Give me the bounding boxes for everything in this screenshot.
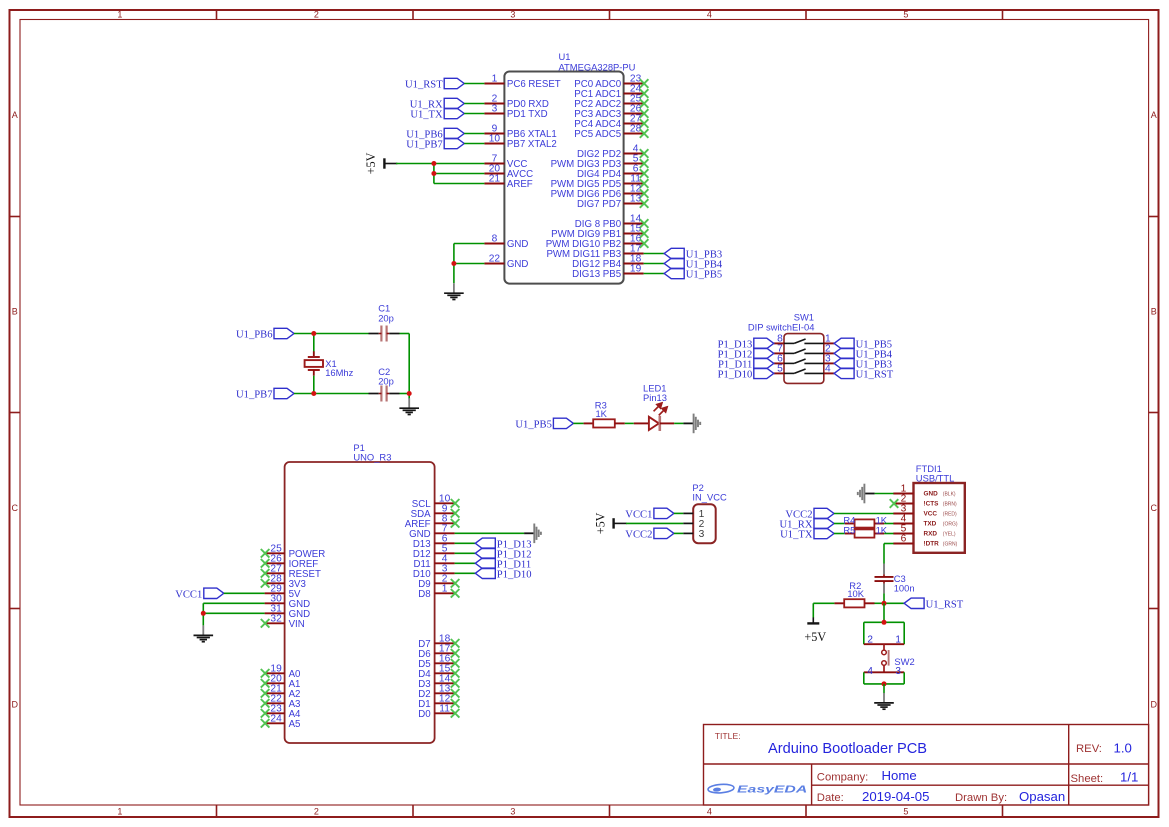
wire SW2 to ground [883, 684, 885, 693]
P2 pin 2 [683, 519, 704, 530]
svg-text:5: 5 [903, 807, 908, 817]
resistor R2 10K [834, 580, 874, 608]
svg-text:3: 3 [699, 529, 705, 540]
capacitor C1 20p [369, 303, 400, 342]
svg-text:B: B [1151, 306, 1157, 316]
SW1 switch element 6-3 [784, 359, 824, 363]
net flag VCC1 (P2) [625, 508, 674, 520]
svg-text:TITLE:: TITLE: [715, 731, 741, 741]
svg-text:RXD: RXD [924, 531, 938, 538]
wire C1 to right rail [400, 334, 410, 394]
wire node to U1 AVCC [434, 173, 485, 175]
P2 pin 3 [683, 529, 704, 540]
junction SW2 top [882, 620, 887, 625]
LED LED1 Pin13 [634, 383, 674, 431]
P1 pin 13 D2 [418, 683, 459, 700]
U1 pin 28 PC5 ADC5 [574, 124, 648, 141]
ground symbol (crystal) [399, 398, 419, 414]
power flag +5V (R2 pullup) [804, 617, 826, 644]
wire U1 GND pin8 [454, 244, 485, 284]
junction VCC node [431, 161, 436, 166]
svg-text:8: 8 [492, 234, 498, 245]
wire U1_PB6 to U1 [464, 133, 484, 135]
svg-text:10: 10 [489, 134, 501, 145]
date field [817, 789, 930, 804]
ground symbol (U1) [444, 283, 464, 299]
svg-text:A5: A5 [289, 719, 301, 730]
ground symbol (LED1) [683, 414, 700, 434]
FTDI1 pin 6 !DTR [893, 534, 957, 548]
P1 pin 6 D13 [413, 533, 455, 550]
svg-text:DIG13 PB5: DIG13 PB5 [572, 269, 621, 280]
svg-text:+5V: +5V [804, 630, 826, 644]
U1 pin 18 DIG12 PB4 [572, 254, 644, 271]
svg-text:+5V: +5V [593, 512, 607, 534]
power flag +5V (P2) [593, 512, 626, 534]
U1 pin 15 PWM DIG9 PB1 [551, 224, 648, 241]
svg-text:24: 24 [270, 713, 282, 724]
revision field [1076, 740, 1132, 755]
P1 pin 18 D7 [418, 633, 459, 650]
svg-text:1K: 1K [595, 408, 607, 419]
svg-text:1: 1 [117, 10, 122, 20]
svg-text:3: 3 [492, 104, 498, 115]
wire U1_PB7 to U1 [464, 143, 484, 145]
P1 pin 24 A5 [261, 713, 301, 730]
svg-text:Home: Home [882, 768, 917, 783]
SW1 pin 6 (left) [774, 354, 784, 365]
svg-text:U1: U1 [559, 51, 571, 62]
net flag U1_PB7 [406, 138, 464, 150]
net flag U1_PB6 (crystal) [236, 328, 294, 340]
FTDI1 pin 4 TXD [893, 514, 958, 528]
svg-text:Pin13: Pin13 [643, 392, 667, 403]
P1 pin 7 GND [409, 523, 455, 540]
svg-text:VCC: VCC [924, 511, 938, 518]
svg-text:GND: GND [507, 239, 529, 250]
svg-text:2: 2 [867, 634, 873, 645]
U1 pin 25 PC2 ADC2 [574, 94, 648, 111]
U1 pin 24 PC1 ADC1 [574, 84, 648, 101]
U1 pin 23 PC0 ADC0 [574, 74, 648, 91]
push button SW2 [864, 634, 915, 677]
svg-text:DIG7 PD7: DIG7 PD7 [577, 199, 621, 210]
U1 pin 2 PD0 RXD [484, 94, 549, 111]
wire U1_PB6 to C1 [294, 333, 369, 335]
wire P1 to P1_D10 [455, 572, 476, 574]
U1 pin 10 PB7 XTAL2 [484, 134, 556, 151]
svg-text:PC5 ADC5: PC5 ADC5 [574, 129, 621, 140]
svg-text:GND: GND [924, 491, 939, 498]
FTDI1 pin 5 RXD [893, 524, 956, 538]
U1 pin 7 VCC [484, 154, 527, 171]
SW1 pin 2 (right) [824, 344, 834, 355]
svg-text:13: 13 [630, 194, 642, 205]
wire node to U1 AREF [434, 164, 485, 184]
svg-text:USB/TTL: USB/TTL [916, 472, 955, 483]
U1 pin 14 DIG 8 PB0 [575, 214, 649, 231]
U1 pin 8 GND [484, 234, 528, 251]
wire U1_RX to R4 [834, 523, 845, 525]
svg-text:28: 28 [630, 124, 642, 135]
svg-text:(RED): (RED) [943, 511, 957, 517]
wire R4 to FTDI TXD [884, 523, 893, 525]
svg-text:1: 1 [442, 583, 448, 594]
P1 pin 16 D5 [418, 653, 459, 670]
svg-text:22: 22 [489, 254, 501, 265]
net flag P1_D11 [475, 558, 531, 570]
P1 pin 2 D9 [418, 573, 459, 590]
wire VCC1 to P2 pin1 [674, 512, 683, 514]
svg-text:(ORG): (ORG) [943, 521, 958, 527]
svg-text:(YEL): (YEL) [943, 531, 956, 537]
title block [704, 725, 1149, 806]
svg-text:1: 1 [117, 807, 122, 817]
U1 pin 3 PD1 TXD [484, 104, 547, 121]
SW1 switch element 7-2 [784, 349, 824, 353]
wire RST node to SW2 [883, 603, 885, 622]
svg-text:U1_PB6: U1_PB6 [236, 330, 273, 341]
svg-text:1: 1 [492, 74, 498, 85]
svg-text:P1_D10: P1_D10 [497, 570, 532, 581]
title text Arduino Bootloader PCB [715, 731, 927, 757]
U1 pin 1 PC6 RESET [484, 74, 560, 91]
U1 pin 13 DIG7 PD7 [577, 194, 648, 211]
net flag P1_D13 [475, 538, 531, 550]
svg-text:U1_PB7: U1_PB7 [406, 140, 443, 151]
wire R3 to LED1 [625, 422, 634, 424]
svg-text:1.0: 1.0 [1114, 740, 1132, 755]
wire P1 to P1_D13 [455, 542, 476, 544]
svg-text:1/1: 1/1 [1120, 770, 1138, 785]
net flag U1_PB5 [664, 268, 722, 280]
svg-text:PC6 RESET: PC6 RESET [507, 79, 561, 90]
SW1 switch element 8-1 [784, 339, 824, 343]
svg-text:Sheet:: Sheet: [1071, 773, 1104, 785]
wire C2 to ground rail [400, 394, 410, 399]
svg-text:4: 4 [867, 666, 873, 677]
U1 pin 26 PC3 ADC3 [574, 104, 648, 121]
P1 pin 30 GND [265, 593, 311, 610]
net flag U1_RST [405, 78, 464, 90]
U1 pin 19 DIG13 PB5 [572, 264, 644, 281]
SW1 switch element 5-4 [784, 369, 824, 373]
sheet field [1071, 770, 1139, 786]
no-connect X FTDI pin2 [890, 499, 899, 508]
U1 pin 27 PC4 ADC4 [574, 114, 648, 131]
net flag P1_D10 (SW1) [718, 368, 774, 380]
U1 pin 5 PWM DIG3 PD3 [551, 154, 649, 171]
svg-text:6: 6 [901, 534, 907, 545]
svg-text:U1_PB5: U1_PB5 [515, 420, 552, 431]
net flag U1_PB3 [664, 248, 722, 260]
junction crystal bottom [311, 391, 316, 396]
wire RST node to U1_RST flag [884, 602, 904, 604]
P1 pin 17 D6 [418, 643, 459, 660]
net flag VCC2 (FTDI) [785, 508, 834, 520]
P1 pin 12 D1 [418, 693, 459, 710]
svg-text:C: C [1151, 503, 1158, 513]
svg-text:B: B [12, 306, 18, 316]
svg-text:16Mhz: 16Mhz [325, 367, 353, 378]
FTDI1 pin 2 !CTS [893, 494, 957, 508]
svg-text:1: 1 [895, 634, 901, 645]
svg-text:D8: D8 [418, 589, 430, 600]
svg-text:2019-04-05: 2019-04-05 [862, 789, 929, 804]
wire R2 to +5V [813, 603, 834, 617]
P1 pin 22 A3 [261, 693, 301, 710]
P1 pin 15 D4 [418, 663, 459, 680]
U1 pin 16 PWM DIG10 PB2 [546, 234, 649, 251]
wire U1 to U1_PB4 [644, 263, 665, 265]
P2 pin 1 [683, 509, 704, 520]
junction SW2 bottom [882, 681, 887, 686]
net flag U1_TX (FTDI) [780, 528, 834, 540]
svg-text:20p: 20p [378, 312, 394, 323]
P1 pin 31 GND [265, 603, 311, 620]
resistor R4 1K [843, 514, 887, 527]
svg-text:100n: 100n [894, 583, 915, 594]
svg-text:C: C [11, 503, 18, 513]
svg-text:R5: R5 [843, 524, 855, 535]
DIP switch SW1 body [748, 312, 824, 384]
wire P1 GND pin7 to ground [455, 532, 524, 534]
svg-text:IN_VCC: IN_VCC [692, 492, 727, 503]
P1 pin 26 IOREF [261, 553, 318, 570]
svg-text:3: 3 [895, 666, 901, 677]
op-amp U1 body (IC ATMEGA328P-PU) [504, 51, 635, 284]
resistor R3 1K [584, 400, 625, 428]
SW1 pin 8 (left) [774, 334, 784, 345]
net flag U1_RX [410, 98, 464, 110]
svg-text:PD1 TXD: PD1 TXD [507, 109, 548, 120]
svg-text:+5V: +5V [364, 152, 378, 174]
U1 pin 20 AVCC [484, 164, 533, 181]
wire P1 to P1_D12 [455, 552, 476, 554]
wire P1 to P1_D11 [455, 562, 476, 564]
svg-text:DIP switchEI-04: DIP switchEI-04 [748, 321, 815, 332]
wire U1_TX to U1 [464, 113, 484, 115]
wire SW2 top loop [864, 622, 904, 644]
svg-text:4: 4 [825, 364, 831, 375]
wire VCC1 to P1 5V [224, 592, 265, 594]
svg-text:20p: 20p [378, 376, 394, 387]
svg-text:PB7 XTAL2: PB7 XTAL2 [507, 139, 557, 150]
net flag U1_RX (FTDI) [780, 518, 834, 530]
svg-text:4: 4 [707, 10, 712, 20]
wire U1 to U1_PB3 [644, 253, 665, 255]
junction RST node [882, 601, 887, 606]
svg-text:A: A [1151, 110, 1157, 120]
svg-text:10K: 10K [847, 588, 864, 599]
svg-text:4: 4 [707, 807, 712, 817]
P1 pin 5 D12 [413, 543, 455, 560]
svg-text:3: 3 [510, 10, 515, 20]
power flag +5V (U1 supply) [364, 152, 397, 174]
svg-text:(GRN): (GRN) [943, 541, 958, 547]
FTDI1 pin 3 VCC [893, 504, 957, 518]
svg-text:REV:: REV: [1076, 743, 1102, 755]
svg-text:AREF: AREF [507, 179, 533, 190]
net flag U1_PB4 (SW1) [834, 348, 893, 360]
P1 pin 11 D0 [418, 703, 459, 720]
wire U1_PB5 to R3 [573, 422, 583, 424]
net flag U1_PB4 [664, 258, 723, 270]
junction crystal top [311, 331, 316, 336]
wire P1 GND pin31 [203, 612, 264, 614]
net flag P1_D12 (SW1) [718, 348, 774, 360]
P1 pin 19 A0 [261, 663, 301, 680]
U1 pin 22 GND [484, 254, 528, 271]
svg-text:VCC1: VCC1 [175, 590, 202, 601]
svg-text:Opasan: Opasan [1019, 789, 1065, 804]
wire U1_TX to R5 [834, 533, 845, 535]
P1 pin 25 POWER [261, 543, 325, 560]
U1 pin 17 PWM DIG11 PB3 [546, 244, 643, 261]
SW1 pin 1 (right) [824, 334, 834, 345]
U1 pin 21 AREF [484, 174, 532, 191]
svg-text:UNO_R3: UNO_R3 [353, 451, 391, 462]
P1 pin 9 SDA [411, 503, 460, 520]
wire SW2 bottom loop [864, 672, 904, 684]
P1 pin 1 D8 [418, 583, 459, 600]
P1 pin 23 A4 [261, 703, 301, 720]
U1 pin 4 DIG2 PD2 [577, 144, 648, 161]
svg-text:Drawn By:: Drawn By: [955, 792, 1007, 804]
capacitor C3 100n [875, 564, 915, 594]
U1 pin 9 PB6 XTAL1 [484, 124, 556, 141]
svg-text:!DTR: !DTR [924, 541, 940, 548]
net flag U1_RST (SW1) [834, 368, 894, 380]
wire C3 to RST node [883, 593, 885, 603]
svg-text:5: 5 [777, 364, 783, 375]
svg-text:U1_RST: U1_RST [405, 80, 443, 91]
svg-text:A: A [12, 110, 18, 120]
wire R5 to FTDI RXD [884, 533, 893, 535]
ground symbol (P1 pin7) [524, 524, 541, 544]
svg-text:VCC1: VCC1 [625, 510, 652, 521]
SW1 pin 7 (left) [774, 344, 784, 355]
P1 pin 27 RESET [261, 563, 321, 580]
net flag U1_PB6 [406, 128, 464, 140]
P1 pin 4 D11 [414, 553, 455, 570]
wire FTDI !DTR to C3 [884, 544, 894, 564]
svg-text:D0: D0 [418, 709, 431, 720]
net flag P1_D11 (SW1) [718, 358, 774, 370]
company field [817, 768, 917, 783]
U1 pin 6 DIG4 PD4 [577, 164, 648, 181]
svg-text:U1_RST: U1_RST [926, 600, 964, 611]
wire U1_RST to U1 [464, 83, 484, 85]
wire U1_PB7 to C2 [294, 393, 369, 395]
P1 pin 8 AREF [405, 513, 460, 530]
junction C2 output [407, 391, 412, 396]
drawn by field [955, 789, 1065, 804]
svg-text:EasyEDA: EasyEDA [737, 784, 807, 795]
junction P1 GND node [201, 611, 206, 616]
P1 pin 20 A1 [261, 673, 301, 690]
svg-text:(BRN): (BRN) [943, 501, 957, 507]
svg-text:2: 2 [314, 807, 319, 817]
crystal X1 16Mhz [305, 334, 354, 394]
connector FTDI1 USB/TTL body [914, 463, 965, 553]
ground symbol (FTDI) [858, 484, 875, 504]
SW1 pin 4 (right) [824, 364, 834, 375]
net flag VCC2 (P2) [625, 528, 674, 540]
svg-text:U1_PB5: U1_PB5 [686, 270, 723, 281]
net flag U1_PB5 (SW1) [834, 338, 892, 350]
svg-text:Company:: Company: [817, 772, 869, 784]
ground symbol (P1) [194, 625, 214, 641]
junction GND node [451, 261, 456, 266]
P1 pin 3 D10 [413, 563, 455, 580]
SW1 pin 5 (left) [774, 364, 784, 375]
P1 pin 29 5V [265, 583, 301, 600]
svg-text:U1_TX: U1_TX [780, 530, 813, 541]
capacitor C2 20p [369, 366, 400, 402]
FTDI1 pin 1 GND [893, 484, 956, 498]
wire +5V to U1 VCC [396, 163, 484, 165]
net flag P1_D13 (SW1) [718, 338, 774, 350]
net flag U1_PB5 (LED drive) [515, 418, 573, 430]
svg-text:ATMEGA328P-PU: ATMEGA328P-PU [559, 62, 636, 73]
svg-text:Date:: Date: [817, 792, 844, 804]
wire LED1 to ground [674, 422, 683, 424]
svg-text:!CTS: !CTS [924, 501, 940, 508]
net flag U1_PB7 (crystal) [236, 388, 294, 400]
svg-text:VIN: VIN [289, 619, 305, 630]
EasyEDA logo [708, 784, 808, 795]
wire VCC2 to FTDI VCC [834, 513, 894, 515]
P1 pin 21 A2 [261, 683, 301, 700]
svg-text:D: D [1151, 699, 1158, 709]
svg-text:(BLK): (BLK) [943, 491, 956, 497]
wire U1 GND pin22 [454, 263, 485, 265]
svg-text:2: 2 [314, 10, 319, 20]
svg-text:GND: GND [507, 259, 529, 270]
svg-text:11: 11 [439, 703, 450, 714]
net flag U1_RST (reset node) [904, 598, 964, 610]
wire R2 to RST node [875, 602, 885, 604]
svg-text:U1_PB7: U1_PB7 [236, 390, 273, 401]
wire FTDI GND to ground [875, 493, 894, 495]
connector P1 UNO_R3 body [285, 442, 435, 743]
P1 pin 32 VIN [261, 613, 305, 630]
resistor R5 1K [843, 524, 887, 537]
wire U1 to U1_PB5 [644, 273, 665, 275]
U1 pin 11 PWM DIG5 PD5 [551, 174, 649, 191]
svg-text:5: 5 [903, 10, 908, 20]
svg-text:3: 3 [510, 807, 515, 817]
P1 pin 28 3V3 [261, 573, 306, 590]
wire U1_RX to U1 [464, 103, 484, 105]
wire +5V to P2 pin2 [626, 522, 683, 524]
wire VCC2 to P2 pin3 [674, 532, 683, 534]
svg-text:VCC2: VCC2 [625, 530, 652, 541]
net flag U1_PB3 (SW1) [834, 358, 892, 370]
P1 pin 10 SCL [412, 493, 460, 510]
svg-text:32: 32 [270, 613, 282, 624]
svg-text:U1_TX: U1_TX [410, 110, 443, 121]
net flag P1_D10 [475, 568, 531, 580]
svg-text:21: 21 [489, 174, 501, 185]
ground symbol (SW2) [874, 693, 894, 709]
SW1 pin 3 (right) [824, 354, 834, 365]
junction AVCC node [431, 171, 436, 176]
net flag VCC1 (P1 5V) [175, 588, 224, 600]
svg-text:Arduino Bootloader PCB: Arduino Bootloader PCB [768, 741, 927, 757]
U1 pin 12 PWM DIG6 PD6 [551, 184, 649, 201]
